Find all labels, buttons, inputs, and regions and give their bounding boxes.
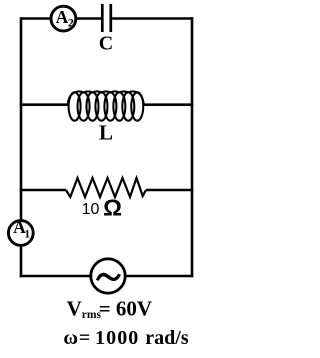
svg-text:rad/s: rad/s <box>145 327 189 349</box>
inductor L coil <box>68 91 144 120</box>
svg-text:10: 10 <box>82 201 100 218</box>
capacitor C plate right <box>109 4 112 32</box>
wire left vertical lower <box>20 246 23 277</box>
svg-text:=: = <box>79 327 90 349</box>
svg-text:2: 2 <box>68 16 74 30</box>
wire inductor branch left <box>20 103 68 106</box>
wire capacitor-to-right-corner <box>112 17 193 20</box>
wire bottom left <box>20 275 90 278</box>
wire resistor branch left <box>20 189 66 192</box>
svg-text:1000: 1000 <box>95 327 139 349</box>
svg-text:C: C <box>99 32 113 54</box>
ammeter A1 <box>8 217 33 245</box>
wire bottom right <box>126 275 193 278</box>
wire inductor branch right <box>144 103 194 106</box>
svg-text:1: 1 <box>24 227 30 241</box>
wire left vertical upper <box>20 17 23 220</box>
wire right vertical <box>191 17 194 277</box>
wire A2-to-capacitor <box>77 17 101 20</box>
AC source <box>91 259 125 293</box>
resistor R zigzag <box>66 178 146 197</box>
svg-text:L: L <box>99 121 113 145</box>
svg-text:Ω: Ω <box>103 195 122 221</box>
wire resistor branch right <box>146 189 193 192</box>
svg-text:V: V <box>67 297 82 321</box>
svg-text:= 60V: = 60V <box>99 297 152 321</box>
capacitor C plate left <box>101 4 104 32</box>
svg-text:A: A <box>56 7 69 27</box>
svg-text:ω: ω <box>63 327 78 349</box>
wire top-left segment <box>21 17 50 20</box>
ammeter A2 <box>51 6 76 31</box>
